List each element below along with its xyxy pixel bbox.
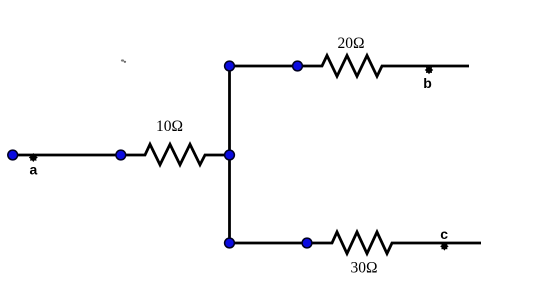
svg-text:20Ω: 20Ω [337,35,364,52]
svg-text:a: a [30,162,38,178]
svg-text:30Ω: 30Ω [350,259,377,276]
svg-text:b: b [423,75,432,91]
svg-text:10Ω: 10Ω [156,118,183,135]
svg-text:c: c [440,226,448,242]
